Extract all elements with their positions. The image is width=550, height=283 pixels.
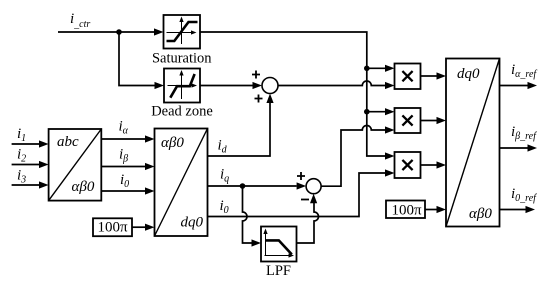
junction bus to mult1 <box>364 66 370 72</box>
wire i_q branch down to LPF (hop over i_0) <box>243 186 262 247</box>
minus sign sum2 bottom <box>301 199 309 201</box>
svg-text:αβ0: αβ0 <box>469 206 492 222</box>
wire mult1 output <box>421 72 447 79</box>
svg-text:αβ0: αβ0 <box>161 135 184 151</box>
dead zone block <box>164 69 200 103</box>
junction i_ctr <box>116 29 122 35</box>
wire 100pi right to dq0 block <box>425 206 446 213</box>
svg-text:dq0: dq0 <box>181 215 204 231</box>
wire bus to mult2 top <box>367 108 395 115</box>
wire LPF output to sum2 (hop over i_0) <box>297 194 319 243</box>
wire mult3 output <box>421 161 447 168</box>
wire 100pi left to middle block <box>132 224 155 231</box>
wire i_ctr input <box>58 28 164 35</box>
plus sign sum1 bottom <box>255 95 263 103</box>
svg-text:dq0: dq0 <box>457 66 480 82</box>
junction i_q <box>240 183 246 189</box>
svg-text:100π: 100π <box>97 220 128 236</box>
wire i_0 to mult3 bottom <box>208 169 395 216</box>
svg-text:αβ0: αβ0 <box>72 179 95 195</box>
wire output i_beta_ref <box>500 144 538 151</box>
wire i_q to sum2 <box>208 182 307 189</box>
svg-text:abc: abc <box>57 134 79 150</box>
transform block abc->ab0 <box>49 129 102 201</box>
svg-text:Dead zone: Dead zone <box>151 104 213 120</box>
wire sum1 output to mult1 bottom (hop over bus) <box>278 81 395 89</box>
wire abc out alpha <box>101 135 154 142</box>
wire output i_alpha_ref <box>500 82 538 89</box>
wire bus to mult1 top <box>367 65 395 72</box>
wire input i_1 <box>12 140 49 147</box>
plus sign sum1 left <box>252 71 260 79</box>
multiplier M2 <box>395 108 421 133</box>
wire input i_2 <box>12 161 49 168</box>
wire abc out beta <box>101 163 154 170</box>
saturation block <box>164 15 201 49</box>
wire mult2 output <box>421 117 447 124</box>
summing junction sum1 <box>262 78 278 94</box>
wire i_ctr branch to dead zone <box>119 32 164 89</box>
multiplier M1 <box>395 64 421 90</box>
block 100pi right <box>386 201 425 219</box>
wire abc out zero <box>101 187 154 194</box>
LPF block <box>261 227 297 262</box>
wire output i_0_ref <box>500 206 536 213</box>
multiplier M3 <box>395 152 421 178</box>
wire i_d to sum1 <box>208 94 274 157</box>
wire saturation output to vertical bus <box>200 32 385 156</box>
wire sum2 output to mult2 bottom (hop over bus) <box>321 126 394 187</box>
transform block dq0->ab0 <box>446 59 500 227</box>
svg-text:100π: 100π <box>391 203 422 219</box>
transform block ab0->dq0 <box>155 129 208 237</box>
summing junction sum2 <box>306 179 321 194</box>
junction bus to mult2 <box>364 109 370 115</box>
wire dead zone output to sum1 <box>200 82 262 89</box>
svg-text:LPF: LPF <box>266 263 291 279</box>
svg-text:Saturation: Saturation <box>152 51 212 67</box>
plus sign sum2 left <box>297 172 305 180</box>
block 100pi left <box>93 218 132 236</box>
wire input i_3 <box>12 181 49 188</box>
